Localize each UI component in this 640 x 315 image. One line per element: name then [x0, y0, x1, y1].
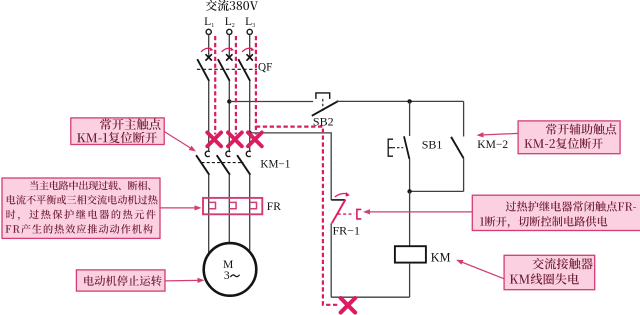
contactor KM-1 pole 2 blade [217, 155, 230, 175]
overload text line3 [6, 210, 155, 221]
arrow to KM coil [456, 260, 504, 279]
svg-text:KM−2: KM−2 [477, 139, 508, 151]
svg-text:KM: KM [431, 251, 451, 265]
control circuit break X [341, 298, 355, 312]
callout box: KM coil de-energised [504, 255, 595, 289]
wire KM-1 to motor pole 2 [228, 175, 230, 254]
QF pole 1 trip arc arrow [201, 47, 213, 52]
wire junction to KM coil [409, 191, 411, 246]
KM-1 linkage [202, 162, 244, 164]
contactor KM-1 pole 1 blade [196, 155, 209, 175]
QF pole 3 trip arc arrow [242, 47, 254, 52]
wire junction to SB1 [409, 101, 411, 136]
FR-1 actuator bracket [357, 209, 361, 219]
fault path dashed branch to control circuit [256, 127, 340, 305]
start button SB1 blade [404, 136, 409, 159]
wire QF to KM-1 pole 1 [208, 81, 210, 151]
wire L3 terminal to QF contact [249, 35, 251, 58]
arrow to KM-1 contacts [164, 132, 196, 152]
wire FR-1 top terminal hook [331, 199, 345, 201]
wire SB2 to parallel branch [337, 100, 464, 102]
wire QF to KM-1 pole 2 [228, 81, 230, 151]
callout box: overload description [2, 178, 160, 238]
svg-text:KM−1: KM−1 [260, 158, 290, 170]
callout box: KM-2 aux contact reset open [518, 121, 620, 154]
fault path dashed line phase 3 [255, 36, 257, 135]
callout text line2 [77, 132, 157, 143]
QF pole 3 opened contact X [247, 55, 252, 60]
fault path dashed line phase 1 [214, 36, 216, 135]
svg-text:FR: FR [267, 201, 281, 213]
FR-1 callout line1 [506, 201, 636, 212]
stop button SB2 blade [312, 101, 339, 116]
wire KM coil to bottom [409, 263, 411, 298]
svg-text:FR−1: FR−1 [333, 224, 360, 238]
wire top to KM-2 [463, 101, 465, 136]
wire L2 tap to SB2 [229, 101, 313, 103]
callout text line1 [100, 119, 160, 130]
KM-1 pole 1 break X [207, 133, 221, 147]
arrow to FR heater box [160, 205, 202, 210]
terminal L1 [206, 29, 211, 34]
motor 3-phase label [224, 269, 240, 282]
overload text line1 [30, 181, 150, 191]
stop button SB2 cap [316, 93, 330, 99]
QF pole 2 blade [218, 59, 230, 81]
wire control bottom [331, 296, 409, 298]
contactor coil KM [395, 246, 426, 262]
KM callout line1 [532, 258, 592, 270]
wire KM-1 to motor pole 3 [249, 175, 251, 254]
fault path dashed line phase 2 [235, 36, 237, 135]
wire SB1 to bottom junction [409, 159, 411, 192]
wire L1 terminal to QF contact [208, 35, 210, 58]
wire L3 tap to FR-1 branch [250, 133, 332, 200]
QF pole 3 blade [238, 59, 250, 81]
node junction below SB1 [407, 189, 411, 193]
contactor KM-1 pole 2 fixed contact [226, 151, 230, 156]
terminal L3 [247, 29, 252, 34]
terminal L2 [227, 29, 232, 34]
node tap on L3 phase [248, 131, 252, 135]
label AC 380V supply [206, 0, 258, 11]
arrow to KM-2 contact [477, 132, 519, 137]
wire L2 terminal to QF contact [228, 35, 230, 58]
node junction above SB1 [407, 99, 411, 103]
thermal relay FR box [203, 198, 262, 214]
QF pole 2 opened contact X [227, 55, 232, 60]
arrow to motor [165, 278, 205, 283]
svg-text:QF: QF [258, 62, 272, 74]
KM-1 pole 3 break X [248, 133, 262, 147]
node tap on L2 phase [227, 99, 231, 103]
callout box: FR-1 opens cuts control supply [472, 195, 640, 230]
wire parallel branch bottom [410, 190, 464, 192]
auxiliary contact KM-2 blade [451, 137, 464, 158]
overload text line2 [7, 195, 158, 205]
FR-1 callout line2 [480, 216, 607, 228]
thermal contact FR-1 blade [332, 200, 346, 224]
contactor KM-1 pole 3 blade [237, 155, 250, 175]
arrow to FR-1 contact [363, 209, 472, 214]
overload text line4 [6, 224, 153, 234]
FR-1 actuator dashed link [338, 213, 355, 215]
breaker QF linkage [197, 68, 257, 70]
svg-text:3: 3 [224, 269, 230, 282]
KM-2 callout line1 [546, 124, 616, 135]
FR heater element 3 [250, 202, 257, 208]
KM callout line2 [510, 273, 579, 284]
wire QF to KM-1 pole 3 [249, 81, 251, 151]
motor M circle [204, 243, 257, 296]
callout box: KM-1 main contacts reset open [71, 118, 164, 145]
callout box: motor stops [76, 270, 165, 291]
QF pole 1 opened contact X [206, 55, 211, 60]
QF pole 1 blade [197, 59, 209, 81]
wire KM-2 to bottom junction [463, 158, 465, 191]
KM-2 callout line2 [524, 138, 602, 149]
SB1 actuator [388, 139, 403, 156]
FR-1 trip arc arrow [335, 192, 350, 197]
svg-text:SB2: SB2 [313, 115, 334, 129]
motor stop text [84, 275, 161, 286]
wire FR-1 to bottom [330, 223, 332, 297]
SB2 actuator dashed stem [322, 99, 324, 111]
svg-text:SB1: SB1 [422, 138, 443, 152]
wire KM-1 to motor pole 1 [208, 175, 210, 254]
KM-1 pole 2 break X [228, 133, 242, 147]
FR heater element 1 [209, 202, 216, 208]
contactor KM-1 pole 3 fixed contact [246, 151, 250, 156]
QF pole 2 trip arc arrow [222, 47, 234, 52]
contactor KM-1 pole 1 fixed contact [205, 151, 209, 156]
FR heater element 2 [229, 202, 236, 208]
